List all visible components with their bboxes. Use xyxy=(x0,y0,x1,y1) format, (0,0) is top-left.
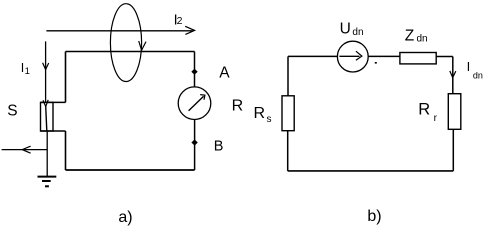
svg-text:U: U xyxy=(340,20,351,37)
arrowhead on loop (points down) xyxy=(139,41,146,50)
svg-text:a): a) xyxy=(118,209,132,226)
resistor R_r rectangle xyxy=(448,94,461,130)
svg-text:A: A xyxy=(219,65,230,82)
wire Z to corner xyxy=(436,56,453,58)
wire bottom of circuit b xyxy=(288,170,454,172)
wire outgoing left arrow line xyxy=(2,149,48,151)
node A diamond xyxy=(191,69,197,75)
wire below R_s xyxy=(287,131,289,171)
stray dot xyxy=(375,62,377,64)
svg-text:2: 2 xyxy=(177,15,183,27)
impedance Z_dn rectangle xyxy=(400,53,436,64)
svg-text:dn: dn xyxy=(417,34,428,45)
wire right vertical lower xyxy=(194,120,196,171)
element S rectangle xyxy=(41,102,54,131)
arrowhead outgoing (points left) xyxy=(22,146,30,153)
wire S top connector xyxy=(41,101,66,103)
resistor R_s rectangle xyxy=(282,96,294,131)
svg-text:b): b) xyxy=(367,208,381,225)
svg-text:Z: Z xyxy=(405,27,414,44)
antenna wire with I1 xyxy=(45,41,47,103)
wire I2 current line xyxy=(46,30,193,32)
svg-text:S: S xyxy=(7,103,17,120)
ground bar 1 xyxy=(38,176,57,178)
wire left vertical upper xyxy=(65,52,67,103)
wire bottom of circuit a xyxy=(66,169,195,171)
svg-text:s: s xyxy=(267,114,272,125)
svg-text:I: I xyxy=(467,59,471,74)
coupling loop (ellipse) xyxy=(110,4,141,82)
wire b top left segment xyxy=(288,55,337,57)
ground bar 2 xyxy=(42,180,51,182)
wire left vertical lower xyxy=(65,131,67,170)
node B diamond xyxy=(191,139,197,145)
svg-text:R: R xyxy=(254,105,266,122)
wire circle to Z xyxy=(368,55,400,57)
wire right vertical with I_dn xyxy=(452,57,454,94)
svg-text:R: R xyxy=(232,98,244,115)
meter needle arrow xyxy=(189,96,204,111)
svg-text:dn: dn xyxy=(473,71,483,81)
svg-text:1: 1 xyxy=(25,66,30,77)
arrowhead I1 (points down) xyxy=(43,63,49,70)
source U_dn circle xyxy=(337,41,368,72)
wire below R_r xyxy=(452,129,454,171)
wire through S xyxy=(46,106,47,131)
arrowhead into S (points down) xyxy=(43,100,48,107)
arrowhead I_dn (points down) xyxy=(450,71,456,78)
wire S bottom connector xyxy=(41,130,66,132)
svg-text:R: R xyxy=(418,101,430,119)
arrowhead I2 (points right) xyxy=(185,26,194,34)
source arrow (points right) xyxy=(339,55,359,57)
svg-text:B: B xyxy=(214,139,224,155)
wire ground lead xyxy=(46,131,48,176)
meter R circle xyxy=(178,87,211,120)
svg-text:dn: dn xyxy=(352,27,363,38)
wire b top-left corner vertical xyxy=(287,56,289,95)
ground bar 3 xyxy=(45,185,49,187)
wire top of circuit a xyxy=(66,51,195,53)
wire right vertical upper xyxy=(194,52,196,88)
